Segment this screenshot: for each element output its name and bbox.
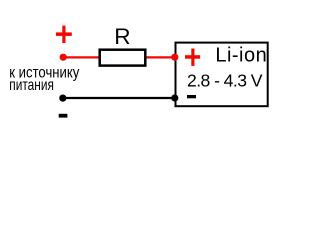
battery - polarity label (black) <box>187 95 196 98</box>
battery + polarity label (red) <box>185 49 200 66</box>
svg-text:R: R <box>114 24 130 49</box>
plus terminal label (source +) <box>56 26 72 43</box>
wire: battery - to source - (black) <box>63 97 175 99</box>
battery BT1 (Li-ion box) <box>176 43 268 107</box>
node: source positive junction (red dot) <box>60 54 67 61</box>
node: battery + terminal (red dot on box edge) <box>171 54 178 61</box>
svg-text:2.8 - 4.3 V: 2.8 - 4.3 V <box>187 70 263 90</box>
minus terminal label (source -) <box>59 114 68 118</box>
wire: resistor to battery + (red) <box>145 56 175 58</box>
resistor R <box>100 50 146 66</box>
svg-text:Li-ion: Li-ion <box>215 45 266 67</box>
wire: source + to resistor (red) <box>63 56 100 58</box>
svg-text:питания: питания <box>9 77 54 94</box>
node: battery - terminal (black dot on box edge) <box>171 94 178 101</box>
node: source negative junction (black dot) <box>59 95 66 102</box>
